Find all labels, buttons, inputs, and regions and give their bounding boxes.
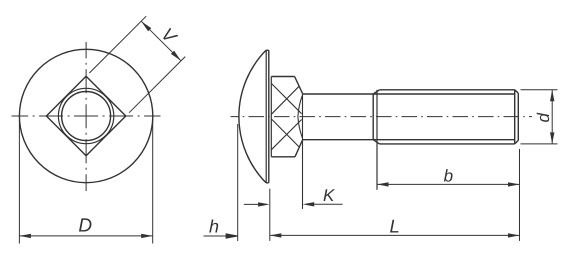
extension line L left (bearing face) (269, 189, 271, 241)
svg-text:L: L (389, 215, 399, 236)
dimension line b (377, 183, 520, 185)
shank circle d (front view) (62, 92, 111, 141)
head dome edge line (inner vertical) (265, 50, 267, 183)
arrow h (outside left) (204, 234, 238, 238)
neck diagonal lower B (271, 119, 299, 147)
square neck bottom edge (271, 156, 295, 158)
thread runout chamfer bottom (373, 140, 379, 144)
thread end chamfer top (515, 90, 519, 94)
svg-text:d: d (534, 113, 553, 123)
neck diagonal upper A (271, 83, 301, 113)
arrow L right (508, 233, 520, 237)
arrow V upper (141, 21, 151, 31)
thread runout vertical (372, 94, 374, 140)
head top closure (266, 49, 269, 51)
svg-text:K: K (323, 186, 335, 205)
square neck left edge (270, 77, 272, 157)
svg-text:D: D (78, 215, 92, 236)
neck inscribed circle (58, 88, 113, 143)
arrow d top (550, 90, 554, 102)
arrow d bottom (550, 132, 554, 144)
vertical centerline (front view) (85, 42, 87, 191)
square neck end edge + K extension line (302, 93, 304, 208)
arrow b left (377, 182, 389, 186)
horizontal centerline (front view) (12, 115, 161, 117)
arrow K outside-right (307, 203, 343, 205)
extension line d bottom (521, 143, 558, 145)
square neck corner arc upper (298, 96, 302, 117)
square neck bottom chamfer (295, 140, 303, 157)
extension line h left (237, 124, 239, 241)
dimension line D (19, 235, 152, 237)
extension line D left (18, 120, 20, 244)
neck diagonal upper B (271, 86, 299, 114)
arrow V lower (171, 51, 181, 61)
head circle D (front view) (19, 49, 152, 182)
dimension line d (551, 90, 553, 144)
bolt end face vertical (517, 93, 519, 140)
extension line V upper (45deg from square top corner) (89, 16, 146, 73)
thread crest bottom line (380, 143, 515, 145)
square neck top edge (271, 76, 294, 78)
head bearing face (outer vertical) (268, 50, 270, 183)
svg-text:h: h (209, 217, 219, 237)
head bottom closure (266, 182, 269, 184)
extension line b/L right (519, 149, 521, 241)
neck diagonal lower A (271, 120, 301, 150)
square neck corner arc lower (298, 117, 302, 138)
dimension line L (270, 234, 520, 236)
dimension line V (141, 21, 181, 61)
thread end chamfer edge vertical (514, 90, 516, 144)
shank bottom line / thread minor bottom (303, 139, 515, 141)
arrow D right (141, 234, 153, 238)
thread runout chamfer top (373, 90, 379, 94)
svg-text:b: b (444, 167, 453, 186)
extension line D right (152, 119, 154, 244)
arrow K outside-left (244, 203, 266, 205)
arrow D left (19, 234, 31, 238)
square neck front view (diamond) (46, 76, 125, 155)
extension line d top (521, 89, 558, 91)
arrow b right (508, 182, 520, 186)
square neck top chamfer (295, 77, 303, 94)
thread end chamfer bottom (515, 140, 519, 144)
svg-text:V: V (157, 24, 181, 48)
shank top line / thread minor top (303, 93, 515, 95)
arrow L left (270, 233, 282, 237)
bolt centerline (side view) (231, 116, 533, 118)
thread start vertical + b extension line (376, 90, 378, 190)
thread crest top line (380, 89, 515, 91)
extension line V lower (45deg from square right corner) (129, 57, 185, 113)
mushroom head dome arc (side view) (239, 50, 266, 183)
